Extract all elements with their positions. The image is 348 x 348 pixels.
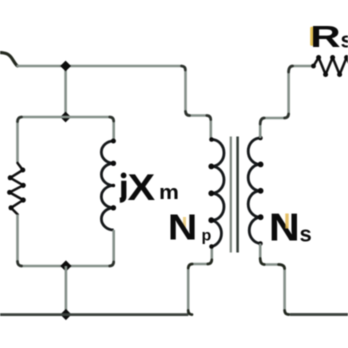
wire: bottom-left rail (primary return) [0, 313, 188, 316]
corner dark marks on primary step [182, 66, 186, 70]
svg-text:m: m [159, 182, 179, 204]
svg-text:s: s [341, 28, 348, 53]
wire: primary coil bottom step to bottom rail [188, 247, 212, 315]
svg-text:p: p [202, 228, 212, 245]
junction node A (top rail) [60, 61, 71, 72]
transformer secondary Ns coil (arcs bulge left) [248, 138, 260, 244]
svg-text:s: s [300, 222, 312, 247]
junction node B (shunt rail) [60, 112, 71, 123]
inductor jXm coil (arcs bulge left) [101, 141, 113, 230]
svg-text:N: N [269, 206, 300, 249]
inductor cusp/end dots [111, 139, 116, 211]
svg-text:X: X [128, 167, 156, 208]
label jXm : j drawn manually (dot + stem-hook) [121, 173, 127, 179]
yellow highlight artifact left of Rs [310, 27, 314, 46]
label Np [183, 217, 186, 232]
wire: bottom-right rail dark overlay [290, 313, 348, 316]
transformer core lines [230, 137, 232, 253]
wire: vertical node C to bottom rail [65, 266, 68, 315]
label Ns [269, 206, 300, 249]
resistor (core-loss branch, left) zigzag [10, 163, 24, 215]
svg-text:R: R [310, 19, 340, 53]
wire: shunt bottom rail y=266 joining resistor and inductor [18, 215, 114, 267]
transformer primary Np coil (arcs bulge right) [212, 140, 224, 247]
wire: vertical between node A and node B [64, 66, 67, 117]
wire: shunt top rail y=117 with corners down to resistor and inductor [18, 117, 114, 163]
wire: top rail from hook to primary step-down [17, 66, 211, 140]
junction node C (shunt bottom rail) [60, 260, 71, 271]
resistor Rs zigzag (cropped at right edge) [314, 58, 348, 75]
junction node D (bottom rail) [60, 309, 71, 320]
svg-text:N: N [168, 208, 198, 248]
wire: cropped resistor leg entering at top-left edge [0, 53, 18, 67]
wire: secondary top step up to Rs [260, 66, 313, 138]
wire: secondary bottom step to bottom-right rail [260, 244, 348, 315]
label Rs [310, 19, 340, 53]
